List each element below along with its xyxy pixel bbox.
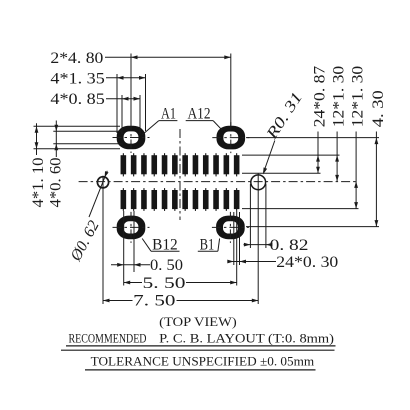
label A1 with leader — [142, 106, 177, 135]
plated hole right (R0.31) — [251, 175, 266, 190]
svg-text:R0. 31: R0. 31 — [263, 89, 306, 143]
svg-text:TOLERANCE UNSPECIFIED ±0. 05: TOLERANCE UNSPECIFIED ±0. 05mm — [91, 353, 315, 368]
caption underline upper — [66, 345, 336, 347]
caption P.C.B. LAYOUT — [159, 331, 334, 346]
svg-text:12*1. 30: 12*1. 30 — [350, 66, 367, 128]
svg-text:2*4. 80: 2*4. 80 — [50, 50, 103, 67]
dimension 5.50 — [124, 211, 237, 292]
oval through-hole pad A12 — [217, 126, 246, 150]
caption rule lower — [61, 349, 335, 351]
caption RECOMMENDED — [69, 331, 147, 346]
oval through-hole pad B1 — [216, 216, 245, 240]
dimension 0.50 — [111, 211, 183, 286]
svg-text:RECOMMENDED: RECOMMENDED — [69, 331, 147, 346]
vertical centerline — [179, 129, 181, 220]
svg-text:24*0. 87: 24*0. 87 — [311, 66, 328, 128]
svg-text:12*1. 30: 12*1. 30 — [331, 66, 348, 128]
oval through-hole pad B12 — [117, 216, 146, 240]
centerline crosshair of pad A1 — [113, 122, 150, 153]
label B1 with leader — [198, 237, 220, 254]
dimension 12*1.30 lower — [350, 66, 367, 209]
right extension lines — [242, 138, 379, 227]
centerline crosshair of pad B1 — [212, 212, 249, 243]
svg-text:4*0. 85: 4*0. 85 — [50, 91, 105, 108]
svg-text:Ø0. 62: Ø0. 62 — [67, 218, 103, 265]
leader dimension R0.31 — [263, 89, 306, 174]
top row pad center ticks — [123, 153, 236, 176]
svg-text:0. 82: 0. 82 — [270, 237, 309, 254]
svg-text:(TOP VIEW): (TOP VIEW) — [159, 314, 236, 329]
label A12 with leader — [186, 106, 223, 131]
label B12 with leader — [142, 237, 179, 254]
dimension 4*0.60 — [47, 121, 122, 208]
svg-text:4*1. 35: 4*1. 35 — [50, 70, 105, 87]
centerline crosshair of pad A12 — [212, 122, 249, 153]
caption (TOP VIEW) — [159, 314, 236, 329]
svg-text:7. 50: 7. 50 — [133, 293, 175, 310]
top row SMT pads A1-A12 — [121, 155, 240, 174]
oval through-hole pad A1 — [117, 126, 146, 150]
horizontal centerline — [79, 181, 359, 183]
svg-text:4*0. 60: 4*0. 60 — [47, 157, 64, 207]
leader dimension Ø0.62 — [67, 171, 109, 265]
svg-text:4*1. 10: 4*1. 10 — [30, 157, 47, 207]
dimension 24*0.30 — [227, 212, 338, 271]
svg-text:4. 30: 4. 30 — [370, 90, 387, 127]
svg-text:5. 50: 5. 50 — [143, 275, 186, 292]
centerline crosshair of pad B12 — [113, 212, 150, 243]
svg-text:P. C. B. LAYOUT (T:0. 8mm): P. C. B. LAYOUT (T:0. 8mm) — [159, 331, 334, 346]
dimension 4*0.85 — [50, 91, 140, 134]
dimension 4*1.10 — [30, 123, 120, 207]
dimension 4*1.35 — [50, 70, 145, 133]
dimension 24*0.87 — [311, 66, 328, 174]
dimension 12*1.30 upper — [331, 66, 348, 182]
dimension 7.50 — [103, 173, 258, 309]
svg-text:0. 50: 0. 50 — [150, 257, 183, 274]
plated hole left (Ø0.62) — [97, 177, 108, 188]
dimension 2*4.80 — [50, 50, 230, 127]
caption underline tolerance — [85, 369, 316, 371]
caption TOLERANCE — [91, 353, 315, 368]
bottom row SMT pads B12-B1 — [121, 190, 240, 209]
dimension 0.82 — [244, 184, 309, 254]
bottom row pad center ticks — [123, 188, 236, 211]
dimension 4.30 — [370, 90, 387, 226]
svg-text:24*0. 30: 24*0. 30 — [276, 254, 338, 271]
